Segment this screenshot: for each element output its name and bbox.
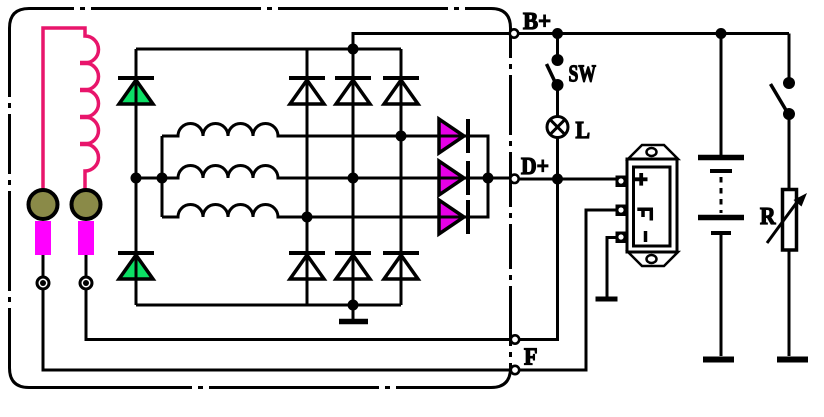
wire lamp branch upper <box>556 34 559 61</box>
junction node star point right <box>157 173 168 184</box>
battery negative plate bar <box>703 357 734 363</box>
brush left (magenta) <box>35 221 51 255</box>
lamp L <box>547 117 568 138</box>
wire exciter diode column <box>135 49 138 305</box>
auxiliary diode D9 (magenta, phase A) <box>439 119 468 153</box>
rectifier diode D6 (bottom row col3) <box>383 253 419 279</box>
slip ring right <box>72 190 101 219</box>
svg-text:L: L <box>576 118 591 144</box>
regulator terminal pin F <box>616 205 628 217</box>
wire lamp to D+ node <box>556 138 559 181</box>
junction node aux output <box>483 173 494 184</box>
wire switch to resistor <box>788 114 791 190</box>
junction node phase B col2 <box>348 173 359 184</box>
battery BT1 <box>698 34 744 357</box>
brush terminal eyelet left <box>37 277 49 289</box>
junction node star point left <box>131 173 142 184</box>
ground (regulator) <box>596 297 618 302</box>
wire left brush to F terminal <box>43 210 617 370</box>
slip ring left <box>29 190 58 219</box>
svg-text:F: F <box>524 345 538 371</box>
wire aux output to D+ terminal <box>468 177 514 180</box>
svg-text:R: R <box>760 204 776 230</box>
terminal DF upper <box>511 335 519 343</box>
wire aux diode outputs <box>468 136 488 217</box>
exciter diode D7 (green, top) <box>118 78 154 104</box>
rectifier diode D4 (bottom row col1) <box>289 253 325 279</box>
brush terminal eyelet right <box>80 277 92 289</box>
rectifier diode D1 (top row col1) <box>289 78 325 104</box>
wire bridge column 2 <box>352 49 355 305</box>
stator winding phase B coil <box>162 166 470 179</box>
wire switch to lamp <box>556 85 559 117</box>
junction node B+/battery <box>716 28 727 39</box>
junction node phase A col3 <box>396 131 407 142</box>
rotor field winding (pink) <box>43 28 99 191</box>
terminal F <box>511 366 519 374</box>
ground (bridge negative) <box>339 305 368 322</box>
rectifier diode D3 (top row col3) <box>383 78 419 104</box>
stator winding phase C coil <box>162 204 470 217</box>
wire D+ terminal to regulator plus <box>514 178 617 181</box>
switch SW <box>547 54 564 91</box>
junction node bridge bottom <box>348 300 359 311</box>
wire star point to exciter column <box>136 177 162 180</box>
wire bridge column 3 <box>400 49 403 305</box>
junction node bridge top <box>348 44 359 55</box>
stator winding phase A coil <box>162 124 470 137</box>
regulator label minus (rotated) <box>644 231 648 242</box>
switch S2 (load) <box>771 77 796 120</box>
auxiliary diode D10 (magenta, phase B) <box>439 161 468 195</box>
brush right (magenta) <box>78 221 94 255</box>
junction node phase C col1 <box>302 212 313 223</box>
auxiliary diode D11 (magenta, phase C) <box>439 200 468 234</box>
rectifier diode D5 (bottom row col2) <box>335 253 371 279</box>
svg-text:B+: B+ <box>523 9 551 35</box>
wire load branch upper <box>788 34 791 84</box>
wire resistor to bottom bar <box>788 250 791 356</box>
wire B+ riser and rail <box>353 34 789 50</box>
rectifier diode D2 (top row col2) <box>335 78 371 104</box>
junction node D+ <box>552 174 563 185</box>
terminal B+ <box>510 29 518 37</box>
wire star point bracket <box>161 136 164 217</box>
svg-text:D+: D+ <box>521 154 549 180</box>
junction node B+/lamp <box>552 28 563 39</box>
exciter diode D8 (green, bottom) <box>118 253 154 279</box>
regulator terminal pin + <box>616 176 628 188</box>
alternator housing dash-dot border <box>10 9 511 388</box>
wire regulator minus to ground <box>607 238 617 298</box>
resistor R (variable load) <box>767 190 807 251</box>
wire right brush to D+ node <box>86 180 558 340</box>
wire bridge bottom rail <box>136 304 401 307</box>
regulator terminal pin minus <box>616 232 628 244</box>
regulator label F (rotated) <box>637 209 653 220</box>
load negative plate bar <box>777 357 808 363</box>
svg-text:SW: SW <box>569 62 597 88</box>
voltage regulator U1 <box>627 145 678 266</box>
terminal D+ <box>510 175 518 183</box>
wire bridge column 1 <box>306 49 309 305</box>
wire bridge top rail <box>136 48 401 51</box>
regulator label plus <box>635 173 648 186</box>
